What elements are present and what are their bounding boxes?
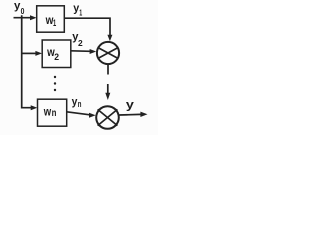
svg-text:w: w [43,105,52,119]
svg-text:2: 2 [54,52,59,62]
svg-text:2: 2 [78,38,83,48]
svg-text:1: 1 [79,8,82,18]
svg-text:n: n [78,99,82,109]
svg-text:y: y [126,97,134,111]
svg-text:0: 0 [21,6,25,16]
svg-text:1: 1 [53,18,56,28]
svg-text:n: n [52,107,57,119]
